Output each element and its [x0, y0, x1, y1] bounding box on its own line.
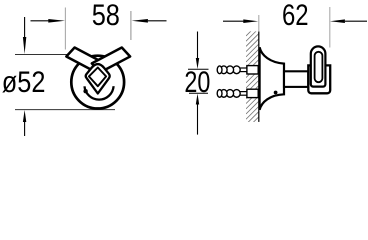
svg-text:58: 58: [92, 0, 120, 32]
svg-text:20: 20: [184, 66, 210, 99]
svg-text:62: 62: [282, 0, 309, 32]
svg-text:ø52: ø52: [2, 66, 46, 99]
